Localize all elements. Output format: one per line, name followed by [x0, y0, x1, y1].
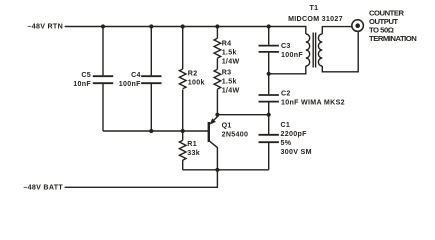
- svg-text:C5: C5: [81, 71, 91, 79]
- svg-text:2200pF: 2200pF: [281, 130, 308, 138]
- svg-text:R1: R1: [187, 140, 197, 148]
- svg-text:100k: 100k: [188, 78, 205, 86]
- svg-text:2N5400: 2N5400: [222, 131, 249, 139]
- svg-text:C4: C4: [131, 71, 141, 79]
- svg-text:1/4W: 1/4W: [222, 87, 240, 95]
- svg-text:T1: T1: [310, 4, 319, 12]
- svg-text:1/4W: 1/4W: [222, 57, 240, 65]
- svg-text:–48V BATT: –48V BATT: [23, 184, 63, 192]
- svg-text:300V SM: 300V SM: [281, 148, 312, 156]
- svg-text:33k: 33k: [187, 149, 200, 157]
- svg-text:R3: R3: [222, 69, 232, 77]
- svg-text:100nF: 100nF: [119, 80, 141, 88]
- svg-text:1.5k: 1.5k: [222, 48, 237, 56]
- svg-text:MIDCOM 31027: MIDCOM 31027: [288, 15, 343, 23]
- svg-text:C2: C2: [281, 89, 291, 97]
- svg-text:5%: 5%: [281, 139, 292, 147]
- svg-text:10nF WIMA MKS2: 10nF WIMA MKS2: [281, 98, 345, 106]
- svg-text:R2: R2: [188, 69, 198, 77]
- svg-text:C1: C1: [281, 121, 291, 129]
- svg-text:C3: C3: [281, 42, 291, 50]
- svg-text:1.5k: 1.5k: [222, 78, 237, 86]
- svg-text:TERMINATION: TERMINATION: [369, 34, 417, 43]
- svg-text:R4: R4: [222, 39, 232, 47]
- svg-text:–48V RTN: –48V RTN: [27, 22, 63, 30]
- svg-text:Q1: Q1: [222, 122, 232, 130]
- svg-text:10nF: 10nF: [73, 80, 91, 88]
- svg-text:100nF: 100nF: [281, 51, 303, 59]
